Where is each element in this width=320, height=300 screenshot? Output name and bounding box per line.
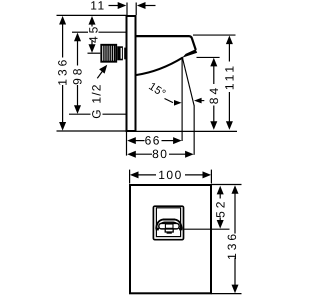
dim 98 upper arrow <box>74 33 81 42</box>
dim 136 line lower <box>62 85 64 124</box>
outlet axis vertical line <box>181 58 183 142</box>
dim 111 line upper <box>228 44 230 62</box>
svg-text:15°: 15° <box>146 80 168 100</box>
dim 66 right arrow <box>173 137 182 144</box>
spout top right extension <box>193 34 236 36</box>
svg-text:98: 98 <box>71 66 85 85</box>
front plate bottom right extension <box>212 293 242 295</box>
dim 98 line lower <box>77 85 79 106</box>
dim 11 leader right <box>144 5 156 7</box>
dim 100 right arrow <box>203 171 212 178</box>
svg-text:136: 136 <box>225 231 239 260</box>
spout front arch inner <box>159 222 178 228</box>
svg-text:84: 84 <box>207 85 221 104</box>
dim 111 lower arrow <box>226 121 233 130</box>
dim 98 lower arrow <box>74 105 81 114</box>
dim 100 left arrow <box>130 171 139 178</box>
dim 84 lower arrow <box>210 121 217 130</box>
dim 98 top extension line <box>72 31 88 33</box>
dim 136b upper arrow <box>232 185 239 194</box>
dim 11 arrow left-pointing <box>137 2 146 9</box>
dim 80 line left <box>135 153 152 155</box>
15 deg right-pointing arrow <box>174 100 182 106</box>
spout front arch outer <box>156 220 181 229</box>
dim 66 line left <box>135 140 145 142</box>
dim 136b line lower <box>234 258 236 286</box>
svg-text:45: 45 <box>87 24 101 43</box>
dim 136 line upper <box>62 24 64 58</box>
aerator tick <box>167 232 172 234</box>
dim 80 right arrow <box>185 151 194 158</box>
dim 98 line upper <box>77 41 79 66</box>
spout tip wedge <box>182 49 197 58</box>
connector ring at plate <box>124 48 126 60</box>
15 deg right tail <box>201 100 205 102</box>
spout front outer box <box>153 206 183 240</box>
dim 11 leader left <box>109 5 119 7</box>
dim 45 lower arrow <box>89 44 96 53</box>
dim 100 line left <box>138 174 157 176</box>
dim 66 left arrow <box>127 137 136 144</box>
aerator tab <box>165 229 173 232</box>
spout top and right edge <box>136 36 196 50</box>
dim 45 upper arrow <box>89 16 96 25</box>
dim 80 line right <box>169 153 186 155</box>
top extension line at plate top <box>57 14 127 16</box>
svg-text:100: 100 <box>158 168 183 182</box>
dim 98 bottom extension line <box>69 113 91 115</box>
dim 136 upper arrow <box>59 16 66 25</box>
dim 45 line stubs <box>91 25 93 27</box>
dim 84 line upper <box>213 66 215 84</box>
svg-text:52: 52 <box>213 199 227 218</box>
dim 45 bottom extension (pipe axis) <box>88 52 101 54</box>
svg-text:111: 111 <box>222 63 236 90</box>
dim 111 line lower <box>228 92 230 122</box>
front plate top right extension <box>212 184 242 186</box>
dim 136b lower arrow <box>232 285 239 294</box>
front plate (front view) <box>130 185 211 293</box>
dim 84 line lower <box>213 106 215 123</box>
aerator slot <box>159 223 179 229</box>
dim 11 extension stubs <box>126 3 128 16</box>
dim 100 line right <box>185 174 204 176</box>
plate left edge extension down <box>126 131 128 156</box>
dim 52 bottom extension <box>184 228 230 230</box>
dim 11 arrow right-pointing <box>118 2 127 9</box>
spout bottom curve <box>136 57 183 75</box>
15 degree slant line <box>182 57 194 106</box>
dim 136b line upper <box>234 193 236 233</box>
dim 136 lower arrow <box>59 122 66 131</box>
wall plate (side view) <box>127 16 136 131</box>
plate bottom extension left <box>57 130 126 132</box>
outlet edge vertical extension <box>193 105 195 154</box>
spout front inner box <box>156 208 180 237</box>
dim 84 upper arrow <box>210 58 217 67</box>
dim 52 upper arrow <box>217 186 224 195</box>
G 1/2 leader arrow <box>99 65 107 74</box>
aerator inner slot <box>165 224 173 228</box>
svg-text:66: 66 <box>145 134 161 148</box>
svg-text:80: 80 <box>152 147 168 161</box>
thread hatch lines <box>103 44 105 62</box>
15 deg left-pointing arrow <box>194 98 202 104</box>
G 1/2 leader line <box>97 69 104 79</box>
15 deg leader <box>165 99 174 103</box>
dim 100 extension stubs <box>129 170 131 184</box>
connector collar <box>117 46 123 60</box>
svg-text:G 1/2: G 1/2 <box>90 83 104 118</box>
dim 66 line right <box>162 140 174 142</box>
svg-text:136: 136 <box>56 57 70 86</box>
dim 80 left arrow <box>127 151 136 158</box>
reference line right of plate bottom <box>137 130 238 132</box>
arch foot right <box>179 227 183 230</box>
svg-text:11: 11 <box>90 0 105 13</box>
dim 111 upper arrow <box>226 36 233 45</box>
threaded connector G1/2 (side view) <box>101 45 116 62</box>
arch foot left <box>156 227 160 230</box>
dim 52 line upper <box>219 194 221 199</box>
dim 52 lower arrow <box>217 220 224 229</box>
dim 52 line lower <box>219 218 221 221</box>
spout tip bottom extension <box>197 56 220 58</box>
